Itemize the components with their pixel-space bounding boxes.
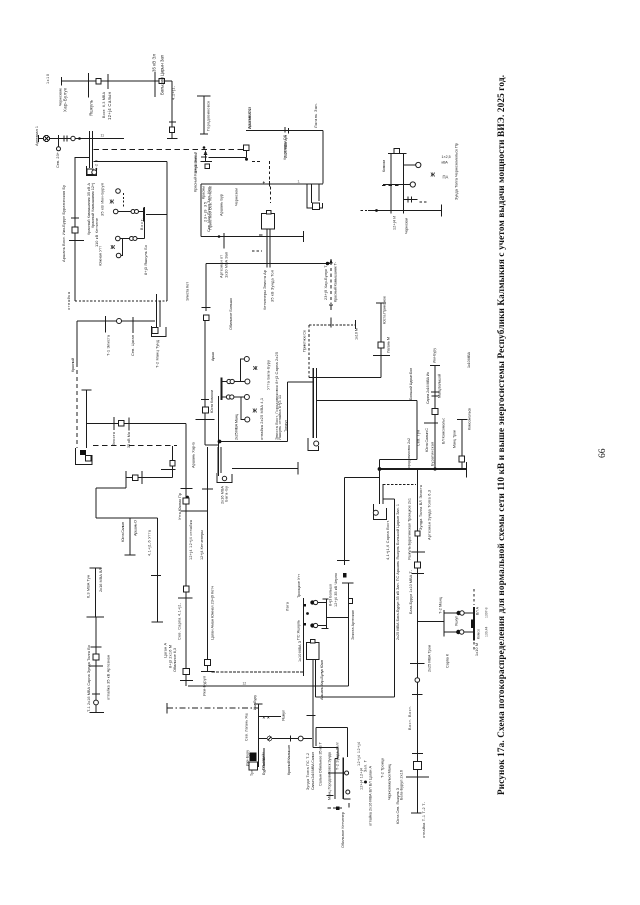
label under blob a bbox=[246, 750, 250, 766]
tie bus V9 bbox=[326, 599, 328, 629]
x mark a on V8 bbox=[263, 715, 266, 720]
terminal tick left of L1 bbox=[61, 77, 63, 86]
label left of station bbox=[210, 390, 214, 413]
label left of bus S2 bbox=[439, 596, 443, 614]
label right of R1 end bbox=[422, 801, 426, 838]
label small 04kV bbox=[140, 218, 144, 230]
label right of R1 b bbox=[428, 490, 432, 540]
dash-dot stub Q bbox=[328, 807, 344, 809]
svg-text:Приютное Се: Приютное Се bbox=[303, 330, 307, 352]
svg-text:Красный Камышаник Т-: Красный Камышаник Т- bbox=[334, 261, 338, 302]
junction station bottom bbox=[218, 440, 222, 444]
transformer lead a under L4 bbox=[311, 184, 313, 203]
label under bus Q long bbox=[340, 812, 345, 848]
label left of I10 bbox=[407, 438, 411, 470]
feeder circle u1 bbox=[416, 162, 421, 167]
svg-text:ПА: ПА bbox=[443, 175, 449, 180]
label col inside rect d bbox=[94, 218, 99, 247]
tick on L14 bbox=[141, 471, 143, 484]
switch R1 box1 bbox=[415, 531, 420, 536]
label inside block left bbox=[303, 330, 307, 352]
earth circle under tap T1 bbox=[57, 147, 61, 151]
breaker circle y1b bbox=[230, 379, 234, 383]
label left of bus B4 bbox=[193, 153, 198, 173]
svg-text:Элиста Кет: Элиста Кет bbox=[186, 282, 190, 301]
label right of bus B5 bbox=[143, 245, 148, 275]
svg-text:Сев. 23+: Сев. 23+ bbox=[56, 151, 60, 168]
tick on bus Q left bbox=[327, 795, 334, 797]
rect2 left bbox=[315, 728, 317, 747]
feeder wire y1 bbox=[222, 381, 245, 383]
label right of V7 bbox=[98, 568, 103, 592]
svg-text:2х25 МВА Арт: 2х25 МВА Арт bbox=[284, 135, 288, 158]
feeder vertical J5 bbox=[461, 420, 463, 470]
svg-text:Сев. Ики-Бурул Зап. Ики-: Сев. Ики-Бурул Зап. Ики- bbox=[207, 185, 211, 232]
wire 110kV line L4 bbox=[201, 183, 323, 185]
bus B3 right leg bbox=[92, 131, 94, 168]
svg-text:12+j4 35 кВ Черно: 12+j4 35 кВ Черно bbox=[334, 573, 338, 607]
label left of K1 bottom bbox=[191, 442, 196, 468]
label above bus B2 bbox=[152, 54, 157, 72]
terminal bar right of L16 bbox=[466, 462, 468, 478]
small tick on V7 lower bbox=[92, 693, 100, 695]
svg-text:Большой Царын Бол: Большой Царын Бол bbox=[409, 368, 413, 400]
motor glyph Zh3 bbox=[252, 366, 258, 372]
transformer lead right under rect bbox=[159, 301, 161, 327]
dashed feeder with arrow bbox=[329, 259, 333, 305]
dash-dot line D3 bbox=[167, 707, 259, 709]
wire L3 right corner drop bbox=[322, 131, 324, 184]
label under L1 left end bbox=[59, 88, 63, 106]
label under tap T1 bbox=[56, 151, 60, 168]
wire V3 short drop bbox=[379, 460, 381, 470]
dash marks near SW4 bbox=[252, 161, 262, 163]
motor glyph Zh5 bbox=[430, 173, 436, 179]
label mid L4 b bbox=[234, 188, 239, 206]
label right of R1 a bbox=[419, 484, 423, 530]
CT circle on N12 bbox=[298, 736, 303, 741]
tick on N12 bbox=[290, 736, 292, 742]
terminal bar V7 end bbox=[90, 712, 105, 714]
svg-text:+: + bbox=[263, 180, 266, 185]
label left of R1 end bbox=[396, 787, 400, 824]
svg-text:Элиста Артезиан: Элиста Артезиан bbox=[351, 610, 355, 640]
wire N10 bbox=[316, 696, 395, 698]
station right edge bbox=[287, 382, 289, 442]
breaker circle y1a bbox=[227, 379, 231, 383]
label near L7 end bbox=[355, 328, 359, 340]
tick M1 y488 bbox=[181, 488, 193, 490]
label under blob b bbox=[250, 762, 254, 776]
svg-text:1.: 1. bbox=[298, 180, 301, 184]
label right of R1 mid bbox=[428, 645, 432, 672]
wire N3 bbox=[327, 617, 349, 619]
label on M1 a bbox=[178, 493, 182, 520]
wire dotted L17 bbox=[383, 483, 416, 485]
tick b on L2 bbox=[66, 136, 68, 142]
tick on K1 bbox=[201, 399, 209, 401]
blob in bracket BL bbox=[80, 450, 86, 455]
svg-text:отпайка 35 кВ Артезиан: отпайка 35 кВ Артезиан bbox=[107, 655, 111, 700]
label under tick bbox=[107, 91, 112, 120]
dashes below S5 bbox=[473, 642, 475, 652]
tick bar u3 bbox=[404, 199, 418, 201]
feeder F1 vertical bbox=[203, 96, 205, 134]
wire crosstie L13 bbox=[87, 423, 186, 425]
jog to bus Q bbox=[335, 758, 338, 760]
transformer circle V11 bbox=[373, 510, 378, 515]
svg-text:Ики-Бурул: Ики-Бурул bbox=[203, 676, 207, 696]
svg-text:Аршань Вост. Ики-Бурул Буратин: Аршань Вост. Ики-Бурул Буратинская Бу bbox=[61, 185, 66, 262]
switch SW7 on V1 bbox=[378, 342, 384, 348]
wire feeder N12 bbox=[259, 738, 313, 740]
label right of bus Q a bbox=[357, 742, 361, 766]
bus B4 bar bbox=[201, 161, 213, 163]
terminal bar bottom of drop bbox=[167, 138, 178, 140]
V7 thin continuation bbox=[95, 617, 97, 647]
tick top of V4 bbox=[82, 389, 92, 391]
tick R1 y694 bbox=[412, 694, 423, 696]
svg-text:Яшкул: Яшкул bbox=[455, 616, 459, 626]
breaker circle c6 bbox=[130, 237, 134, 241]
transformer leg Ub bbox=[403, 154, 405, 214]
svg-text:Юста Салын С: Юста Салын С bbox=[425, 428, 429, 452]
terminal tick left of D3 bbox=[166, 703, 168, 714]
tick top of V7 bbox=[90, 567, 102, 569]
wide tick M2 bbox=[201, 671, 215, 673]
svg-text:Сев. Цаган: Сев. Цаган bbox=[130, 335, 135, 356]
svg-text:Красный: Красный bbox=[71, 358, 75, 372]
tick on left vertical bbox=[71, 217, 79, 219]
transformer box T3 bbox=[307, 643, 320, 660]
wire L4 left corner drop bbox=[200, 184, 202, 237]
svg-text:Аршань Хар-Б: Аршань Хар-Б bbox=[191, 442, 196, 468]
wire 110kV line L2 bbox=[39, 138, 125, 140]
svg-text:4,1+j1,6 Утта: 4,1+j1,6 Утта bbox=[148, 529, 152, 556]
motor glyph Zh4 bbox=[252, 409, 258, 415]
motor glyph Zh1 bbox=[109, 200, 115, 206]
wire block mid L9 bbox=[317, 400, 417, 402]
label inside station a bbox=[259, 398, 264, 440]
feeder vertical V4 bbox=[86, 390, 88, 448]
label right of T5 bbox=[351, 610, 355, 640]
feeder wire w3 bbox=[121, 239, 123, 256]
dashed tie line D2 bbox=[93, 445, 177, 447]
svg-text:Вост. Вост.: Вост. Вост. bbox=[408, 706, 412, 730]
wire stub to SW4 bbox=[209, 157, 247, 159]
dashed left edge of block bbox=[308, 325, 310, 378]
label right of feeder F1 bbox=[206, 101, 211, 131]
label inside station c bbox=[274, 352, 279, 440]
label right of J4 bottom bbox=[453, 430, 457, 448]
dashes above S5 bbox=[473, 589, 475, 605]
feeder wire q2 bbox=[317, 625, 327, 627]
label on L15 right drop bbox=[148, 529, 152, 556]
label left of R1 bottom bbox=[408, 706, 412, 730]
wire long feeder R1 lower bbox=[416, 622, 418, 814]
svg-text:Яшкуль: Яшкуль bbox=[89, 99, 94, 116]
bracket under bus Q bbox=[343, 798, 350, 800]
wire L15b corner bbox=[95, 488, 97, 518]
svg-text:66: 66 bbox=[598, 448, 608, 458]
svg-text:кВА: кВА bbox=[442, 161, 449, 165]
svg-text:1х10 МВА Зап: 1х10 МВА Зап bbox=[224, 252, 229, 278]
feeder vertical V7 bbox=[95, 568, 97, 617]
svg-text:Черноземельск Манц: Черноземельск Манц bbox=[388, 763, 392, 800]
switch box on T3 top bbox=[311, 639, 315, 643]
transformer lead k2 bbox=[220, 447, 222, 473]
bus B3 left leg bbox=[89, 131, 91, 168]
small marks left of caption b bbox=[485, 627, 489, 637]
feeder circle y1c bbox=[245, 379, 250, 384]
svg-text:8+j3 Элис: 8+j3 Элис bbox=[193, 153, 198, 173]
feeder drop V11 bbox=[379, 469, 381, 504]
label under M2 corner bbox=[203, 676, 207, 696]
label right of V7 lower bbox=[107, 655, 111, 700]
tick on drop bbox=[169, 121, 176, 123]
label near B3 transformer bbox=[95, 160, 99, 170]
svg-text:Юста Комсом: Юста Комсом bbox=[210, 390, 214, 413]
station bottom wire bbox=[219, 441, 288, 443]
wire L12 left corner drop bbox=[76, 321, 78, 363]
T-mark serif bbox=[329, 304, 333, 306]
label under leg Ua bbox=[393, 216, 397, 230]
svg-text:Ж: Ж bbox=[109, 200, 115, 206]
switch box on T2 top bbox=[267, 210, 271, 214]
svg-text:4,1+j1,: 4,1+j1, bbox=[172, 86, 176, 100]
switch R1 box3 bbox=[414, 762, 422, 770]
wide tick R1 y663 bbox=[410, 663, 425, 665]
label right top of J5 bbox=[467, 351, 471, 368]
tick small u3a bbox=[407, 197, 409, 203]
label right of K1 bbox=[235, 413, 239, 440]
label right of SW7 bbox=[387, 337, 391, 353]
label under bus B6 a bbox=[220, 486, 225, 504]
plus mark near L4 bbox=[263, 180, 266, 185]
svg-text:139,44: 139,44 bbox=[485, 627, 489, 637]
symbol on N12 bbox=[267, 736, 272, 741]
label PS name under B1 bbox=[63, 88, 68, 112]
label inside bus Q bbox=[328, 751, 332, 800]
svg-text:Городовиковск: Городовиковск bbox=[206, 101, 211, 131]
rect2 right bbox=[347, 728, 349, 758]
svg-text:2х25 МВА Трои: 2х25 МВА Трои bbox=[428, 645, 432, 672]
svg-text:Сев. Сарпа 4,1+j1,: Сев. Сарпа 4,1+j1, bbox=[178, 603, 182, 640]
tick b on L13 bbox=[128, 418, 130, 431]
label right of bus B2 bbox=[160, 54, 165, 95]
svg-text:Бага-Бурул 2х16: Бага-Бурул 2х16 bbox=[400, 770, 404, 800]
feeder wire w2 bbox=[119, 238, 145, 240]
transformer box BL bbox=[86, 455, 92, 461]
label under L3 break2 bbox=[284, 135, 288, 158]
dashed tie line D1 bbox=[94, 149, 245, 151]
feeder drop V6 bbox=[129, 518, 131, 555]
svg-text:×: × bbox=[263, 715, 266, 720]
T2 lead b bbox=[269, 229, 271, 268]
feeder wire y4 dashed bbox=[241, 397, 245, 420]
bus B7 bbox=[303, 598, 305, 676]
breaker black b on B7 bbox=[303, 623, 306, 626]
label left of M bottom a bbox=[164, 643, 168, 658]
dash marks under T2 bbox=[252, 250, 262, 252]
caption rotated figure title bbox=[496, 75, 506, 795]
svg-text:Буратинская: Буратинская bbox=[431, 442, 435, 466]
small node on B7 bbox=[306, 612, 309, 615]
svg-text:Артезиан Зунда Толга 6,3: Артезиан Зунда Толга 6,3 bbox=[428, 490, 432, 540]
svg-text:Комсо: Комсо bbox=[477, 629, 481, 639]
svg-text:отпайка 2х25 МВА 4,1: отпайка 2х25 МВА 4,1 bbox=[259, 398, 264, 440]
svg-text:Т-2 Троицк: Т-2 Троицк bbox=[381, 758, 385, 778]
svg-text:Юста Салын: Юста Салын bbox=[121, 522, 125, 542]
rect right wire bbox=[166, 162, 168, 302]
svg-text:Аршань Хар-Булук Южн: Аршань Хар-Булук Южн bbox=[320, 660, 324, 700]
svg-text:35 кВ Ики-Бурул: 35 кВ Ики-Бурул bbox=[100, 183, 105, 216]
svg-text:ПС Яшкуль: ПС Яшкуль bbox=[297, 620, 301, 640]
svg-text:Буратинск: Буратинск bbox=[262, 757, 266, 775]
svg-text:Черноземе: Черноземе bbox=[59, 88, 63, 106]
svg-text:Обильное Большо: Обильное Большо bbox=[228, 298, 233, 330]
label under L6 left bbox=[220, 255, 224, 278]
tick M1 y598 bbox=[178, 597, 193, 599]
svg-text:Т-2 Манц: Т-2 Манц bbox=[439, 596, 443, 614]
label under L12 a bbox=[106, 334, 111, 356]
label right of N12 2 bbox=[306, 753, 310, 790]
label under B4 col3 bbox=[207, 185, 211, 232]
breaker dot q2a bbox=[310, 623, 314, 627]
label left of J4 bottom bbox=[425, 428, 429, 452]
label left of B7 bbox=[286, 601, 290, 611]
T-mark above bus bbox=[330, 305, 332, 310]
switch R1 box2 bbox=[414, 562, 420, 568]
rect bottom wire dotted bbox=[75, 300, 167, 302]
label left of dashed feeder bbox=[324, 263, 328, 300]
wire S3 bbox=[444, 612, 474, 614]
wide tick on V5 bbox=[161, 469, 176, 471]
svg-text:Ж: Ж bbox=[110, 245, 116, 251]
label left of V7 lower bbox=[87, 645, 91, 712]
tick crossing T3 lead bbox=[307, 715, 316, 717]
dashed stub on L4 bbox=[269, 161, 271, 184]
tick top of J5 bbox=[457, 419, 468, 421]
svg-text:отпайка Т-1 Т-2 Т-: отпайка Т-1 Т-2 Т- bbox=[422, 801, 426, 838]
bus S5 bbox=[473, 607, 475, 641]
station bus tick bbox=[221, 378, 223, 401]
feeder circle y3c bbox=[244, 395, 249, 400]
transformer box under B3 bbox=[87, 169, 93, 175]
label right of N12 3 bbox=[311, 752, 315, 790]
tiny mark 11 on L2 bbox=[101, 134, 105, 138]
label right of Q4 bbox=[400, 770, 404, 800]
svg-text:1х10: 1х10 bbox=[46, 74, 50, 84]
transformer box TR bbox=[313, 203, 320, 209]
T3 lead a bbox=[312, 660, 314, 748]
transformer bracket TR bbox=[307, 184, 323, 208]
svg-text:Зунда Толга Черноземельск Пр: Зунда Толга Черноземельск Пр bbox=[454, 143, 459, 200]
terminal bar under right drop bbox=[152, 621, 164, 623]
svg-text:Ж: Ж bbox=[252, 366, 258, 372]
svg-text:Т-2 Ч: Т-2 Ч bbox=[95, 160, 99, 170]
V8 tail bbox=[263, 748, 265, 766]
label above J4 top bbox=[432, 348, 436, 363]
svg-text:Салын Обильное 35 кВ Т: Салын Обильное 35 кВ Т bbox=[319, 741, 323, 786]
page number 66 bbox=[598, 448, 608, 458]
label right of bus Q b bbox=[360, 768, 364, 790]
svg-text:110 кВ Кетчене: 110 кВ Кетчене bbox=[94, 218, 99, 247]
svg-text:Аршань О: Аршань О bbox=[134, 520, 138, 536]
wide tick on T4 bbox=[337, 560, 350, 562]
label right of L3 bbox=[313, 103, 318, 128]
wide tick on left vertical bbox=[69, 240, 84, 242]
label top of V8 bbox=[253, 695, 257, 710]
label under break of L3 bbox=[282, 134, 287, 160]
junction left end L16 bbox=[378, 467, 382, 471]
label long right of U bbox=[454, 143, 459, 200]
switch SW9 on L13 bbox=[119, 421, 124, 426]
feeder V7 lower bbox=[95, 647, 97, 713]
dash marks u4 bbox=[420, 201, 429, 203]
label tiny u b bbox=[442, 161, 449, 165]
bus tick left inner bbox=[143, 208, 145, 222]
svg-text:12: 12 bbox=[243, 682, 247, 686]
svg-text:Цаган А: Цаган А bbox=[164, 643, 168, 658]
svg-text:4,1+j1,6 Сарпа Вост.: 4,1+j1,6 Сарпа Вост. bbox=[386, 520, 390, 560]
tick top of V9 bbox=[323, 598, 329, 600]
feeder circle c2 bbox=[113, 209, 118, 214]
wire main tie line L6 bbox=[206, 263, 330, 265]
tick under feeder F1 bbox=[201, 156, 207, 158]
svg-text:Цаган Аман Южная 23+j9 Кетч: Цаган Аман Южная 23+j9 Кетч bbox=[211, 586, 215, 640]
generator symbol G1 on L2 bbox=[43, 135, 49, 141]
tick R1 y552 bbox=[412, 551, 426, 553]
svg-text:12+j4 12+j4: 12+j4 12+j4 bbox=[357, 742, 361, 766]
svg-text:Кетченеры Элиста Ар: Кетченеры Элиста Ар bbox=[262, 270, 267, 310]
dashed stub under c1 bbox=[123, 193, 125, 208]
feeder circle u2 bbox=[410, 182, 415, 187]
bus pair leg a bbox=[312, 368, 314, 438]
wide tick M1 y680 bbox=[180, 680, 193, 682]
breaker black a on B7 bbox=[303, 604, 306, 607]
label left of V6 bbox=[121, 522, 125, 542]
switch SW10 on V5 bbox=[170, 461, 175, 466]
breaker dot s4a bbox=[456, 630, 460, 634]
node on feeder F1 bbox=[203, 146, 206, 149]
transformer lead b under L4 bbox=[318, 184, 320, 201]
svg-text:Тундут: Тундут bbox=[284, 420, 288, 432]
label right of J5 bbox=[467, 408, 471, 430]
feeder wire y2 bbox=[241, 359, 245, 382]
svg-text:Чернозем: Чернозем bbox=[234, 188, 239, 206]
transformer circle q4 bbox=[346, 790, 350, 794]
wire feeder L14 bbox=[126, 477, 173, 479]
label inside station b bbox=[266, 360, 271, 390]
transformer blob under V8 bbox=[250, 753, 257, 762]
junction J4 on L16 bbox=[433, 467, 436, 470]
transformer circle under B3 bbox=[92, 170, 97, 175]
svg-text:Арша: Арша bbox=[211, 351, 215, 361]
bus B1 on L1 bbox=[88, 73, 90, 98]
feeder circle y2c bbox=[244, 357, 249, 362]
junction on L5 bbox=[218, 235, 221, 238]
feeder K1 vertical bbox=[204, 321, 206, 445]
svg-text:Лага: Лага bbox=[286, 601, 290, 611]
dotted bus line L7 bbox=[309, 324, 356, 326]
label feeder F1 bbox=[193, 151, 198, 192]
label under T2 a bbox=[262, 270, 267, 310]
wire feeder line L11 bbox=[232, 468, 298, 470]
label right of J4 b bbox=[442, 418, 446, 444]
label small in S cluster bbox=[455, 616, 459, 626]
disconnector switch SW2 on L1 bbox=[159, 79, 164, 84]
